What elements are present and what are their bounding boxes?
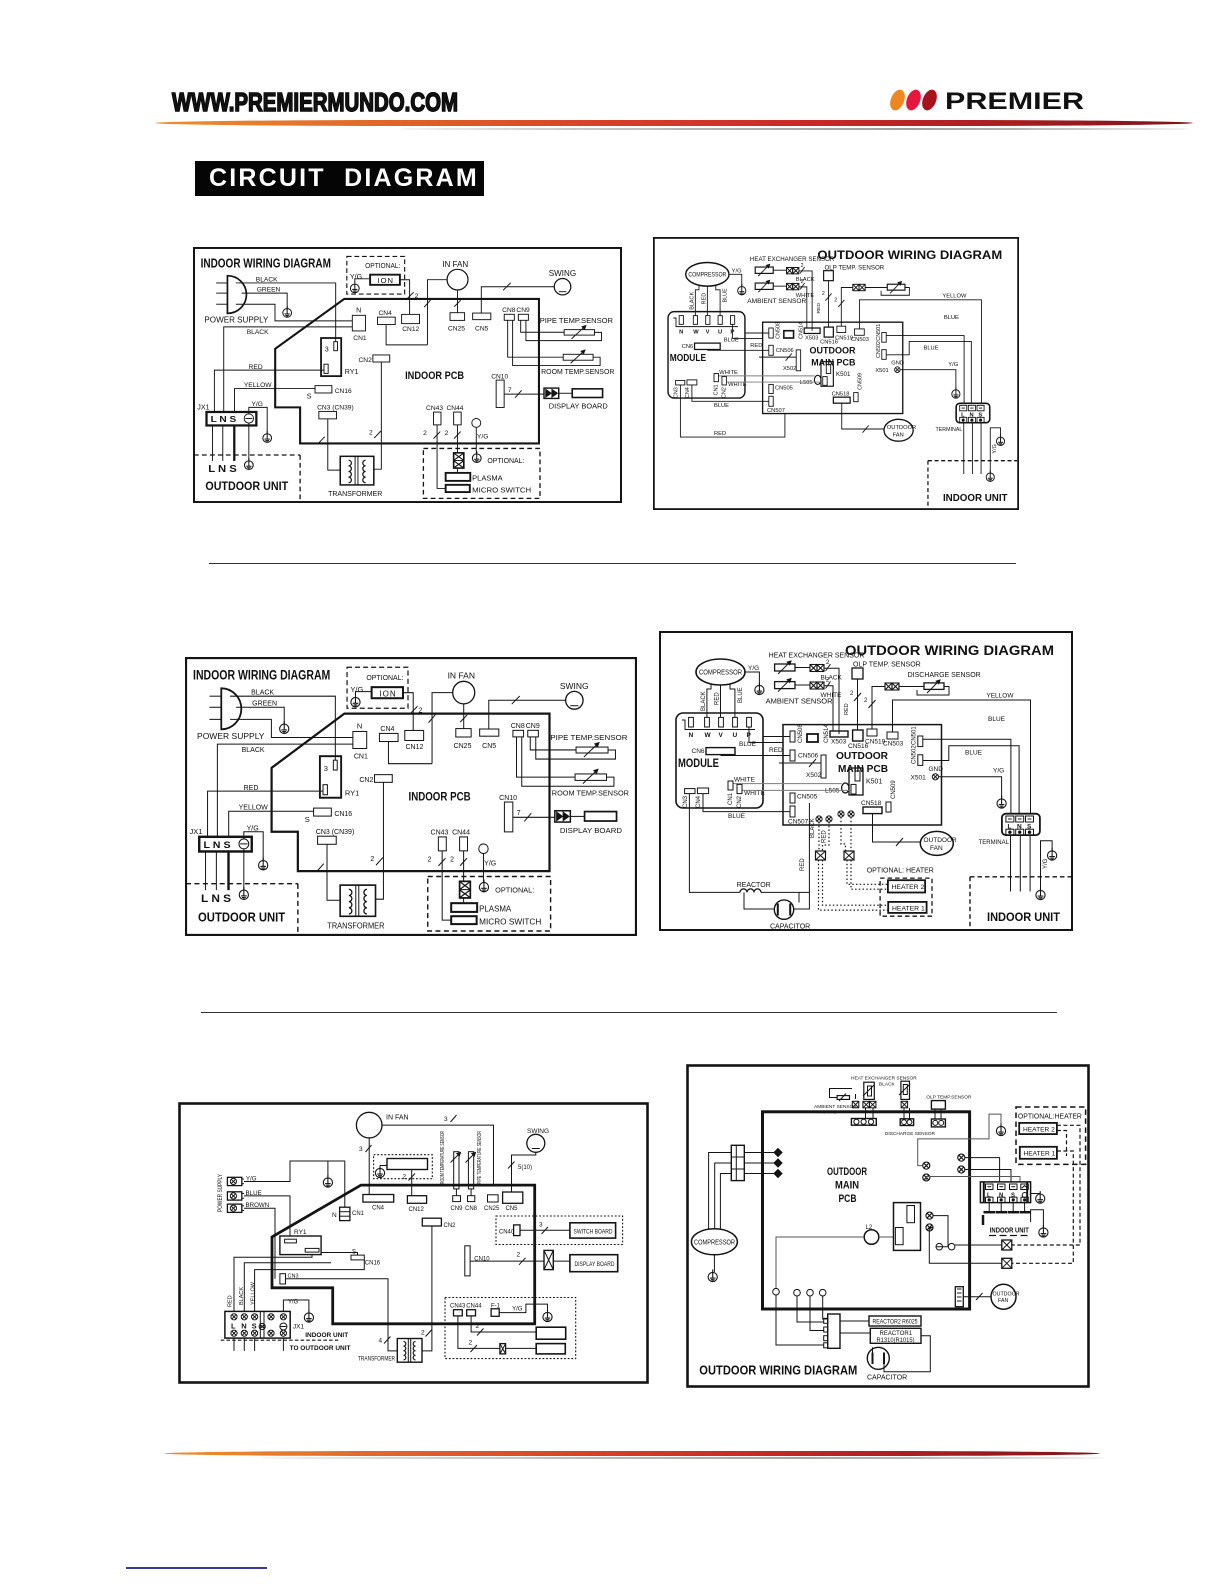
svg-text:ROOM TEMPERATURE SENSOR: ROOM TEMPERATURE SENSOR: [440, 1131, 446, 1184]
svg-text:S: S: [252, 1322, 257, 1331]
reactor1: [870, 1328, 921, 1343]
svg-text:CN9: CN9: [451, 1206, 464, 1212]
svg-text:RED: RED: [714, 431, 726, 437]
svg-text:REACTOR2 R6025: REACTOR2 R6025: [873, 1320, 919, 1326]
terminal stubs: [988, 1203, 990, 1213]
compressor connector: [731, 1145, 744, 1180]
top gradient rule: [155, 120, 1193, 126]
outdoor main pcb: [763, 1112, 970, 1309]
svg-text:N: N: [999, 1193, 1003, 1199]
wire dotted to heater2: [847, 860, 888, 884]
ground in optional box: [543, 1310, 552, 1322]
relay box: [894, 1203, 921, 1251]
footer link line: [126, 1567, 267, 1569]
svg-text:RY1: RY1: [294, 1229, 307, 1236]
svg-text:CN8: CN8: [465, 1206, 478, 1212]
wire dotted pair2: [841, 817, 846, 851]
svg-text:CN44: CN44: [466, 1304, 482, 1310]
svg-text:HEATER 2: HEATER 2: [1023, 1126, 1055, 1133]
dashed wire heater1: [1012, 1151, 1074, 1263]
screw terminals pcb bottom: [816, 816, 822, 822]
aux board 2: [536, 1344, 565, 1354]
display board: [570, 1255, 618, 1272]
connector N CN1: [340, 1207, 350, 1220]
svg-text:CN12: CN12: [409, 1207, 425, 1213]
ground indoor unit: [1039, 1225, 1048, 1237]
svg-text:YELLOW: YELLOW: [251, 1281, 257, 1305]
svg-text:SWITCH BOARD: SWITCH BOARD: [574, 1229, 613, 1236]
svg-text:S: S: [1011, 1193, 1015, 1199]
svg-text:AMBIENT SENSOR: AMBIENT SENSOR: [814, 1104, 857, 1110]
heater plug 1: [1002, 1240, 1012, 1250]
pcb bottom nodes: [773, 1288, 780, 1295]
frame border: [688, 1066, 1089, 1387]
svg-text:TO OUTDOOR UNIT: TO OUTDOOR UNIT: [290, 1345, 351, 1352]
switch board: [570, 1223, 616, 1238]
capacitor: [867, 1347, 889, 1369]
logo dot orange: [887, 88, 907, 113]
svg-text:RED: RED: [822, 830, 828, 843]
svg-text:CN40: CN40: [499, 1230, 515, 1236]
svg-text:CN43: CN43: [450, 1304, 466, 1310]
ground compressor: [708, 1270, 717, 1282]
ground power supply: [323, 1175, 332, 1187]
row3 indoor wiring diagram: [178, 1102, 649, 1384]
wire compressor leads: [709, 1153, 732, 1229]
heater 2: [888, 880, 925, 892]
svg-text:DISPLAY BOARD: DISPLAY BOARD: [575, 1261, 615, 1268]
svg-text:2: 2: [469, 1340, 473, 1347]
connector CN12: [407, 1196, 426, 1204]
terminal BROWN: [227, 1204, 241, 1212]
svg-text:HEATER 2: HEATER 2: [892, 884, 925, 891]
svg-text:OUTDOOR: OUTDOOR: [993, 1292, 1020, 1298]
heater plug 1: [816, 851, 826, 860]
svg-text:WHITE: WHITE: [821, 1110, 836, 1116]
row2 indoor wiring diagram: [185, 657, 637, 936]
svg-text:L: L: [231, 1322, 236, 1331]
wire ground top: [918, 1114, 1001, 1166]
frame border: [180, 1104, 648, 1383]
svg-text:DISCHARGE SENSOR: DISCHARGE SENSOR: [885, 1131, 936, 1137]
wire compressor ground: [713, 1255, 715, 1272]
svg-text:2: 2: [421, 1330, 425, 1337]
screw pair C: [926, 1212, 933, 1219]
svg-text:R1310(R1015): R1310(R1015): [877, 1338, 915, 1344]
svg-text:INDOOR UNIT: INDOOR UNIT: [305, 1332, 348, 1339]
terminal block: [980, 1182, 1030, 1203]
dashed indoor/outdoor split: [221, 1339, 340, 1341]
svg-text:BLACK: BLACK: [810, 818, 816, 838]
svg-text:CN2: CN2: [444, 1223, 457, 1229]
wire screws to terminal: [965, 1158, 1000, 1182]
terminal Y/G: [227, 1177, 241, 1185]
svg-text:3: 3: [444, 1116, 448, 1123]
heater dashed box: [880, 878, 932, 916]
outdoor fan: [991, 1284, 1016, 1309]
svg-text:PIPE TEMPERATURE SENSOR: PIPE TEMPERATURE SENSOR: [477, 1131, 483, 1184]
wire phase 2: [744, 1162, 774, 1164]
ground JX1: [304, 1310, 313, 1322]
node circles: [936, 1243, 943, 1250]
logo dot red: [903, 88, 923, 113]
svg-text:2: 2: [517, 1252, 521, 1259]
wire RY1 to CN16: [321, 1253, 357, 1256]
wire CN40 to switch board: [520, 1229, 570, 1231]
wire CN3 to reactor: [689, 794, 740, 892]
ground pcb top: [996, 1124, 1005, 1136]
wire CN3 to transformer: [286, 1279, 398, 1351]
svg-text:OPTIONAL: HEATER: OPTIONAL: HEATER: [867, 868, 934, 875]
wire to fan: [963, 1296, 991, 1298]
sensor connector block: [851, 1119, 876, 1126]
connector CN3: [280, 1274, 286, 1284]
svg-text:OLP TEMP.SENSOR: OLP TEMP.SENSOR: [926, 1095, 972, 1101]
transformer: [397, 1339, 422, 1363]
bottom gradient rule: [164, 1451, 1100, 1456]
capacitor C1: [774, 900, 793, 919]
svg-text:RED: RED: [228, 1295, 234, 1307]
ion box: [387, 1159, 428, 1170]
wires below JX1: [233, 1338, 235, 1351]
svg-text:HEATER 1: HEATER 1: [1024, 1151, 1056, 1158]
svg-text:JX1: JX1: [293, 1324, 305, 1331]
wire BLUE run: [244, 1196, 290, 1236]
svg-text:CAPACITOR: CAPACITOR: [770, 924, 810, 931]
svg-text:MAIN: MAIN: [835, 1180, 859, 1192]
header website name: [168, 84, 468, 118]
svg-text:CN4: CN4: [372, 1206, 385, 1212]
heater 1: [1020, 1147, 1057, 1159]
heater 2: [1019, 1123, 1057, 1134]
indoor unit label: [982, 1215, 985, 1225]
svg-text:S: S: [352, 1250, 356, 1256]
svg-text:REACTOR: REACTOR: [737, 882, 771, 889]
svg-text:WWW.PREMIERMUNDO.COM: WWW.PREMIERMUNDO.COM: [172, 87, 458, 117]
svg-text:POWER SUPPLY: POWER SUPPLY: [217, 1174, 224, 1212]
screw pair B: [958, 1154, 965, 1161]
svg-text:CN1: CN1: [352, 1211, 365, 1217]
optional sensor dotted box: [374, 1155, 433, 1179]
wire reactor to capacitor left: [744, 892, 774, 909]
optional dotted box bottom: [445, 1298, 576, 1359]
connector CN4: [363, 1195, 394, 1203]
svg-text:3: 3: [359, 1146, 363, 1153]
svg-text:2: 2: [476, 1323, 480, 1330]
svg-text:HEATER 1: HEATER 1: [892, 906, 925, 913]
wire indoor unit ground: [1031, 1210, 1044, 1227]
wire ground branch: [327, 1161, 329, 1177]
svg-text:OPTIONAL:HEATER: OPTIONAL:HEATER: [1018, 1112, 1082, 1121]
svg-text:CN5: CN5: [506, 1206, 519, 1212]
wire to plug1: [955, 1244, 1002, 1246]
svg-text:REACTOR1: REACTOR1: [880, 1331, 913, 1337]
svg-text:L: L: [987, 1193, 991, 1199]
connector CN10: [465, 1246, 470, 1276]
wire fan right: [382, 1125, 494, 1185]
terminal BLUE: [227, 1192, 241, 1200]
svg-text:PREMIER: PREMIER: [945, 88, 1084, 115]
discharge sensor: [901, 1081, 910, 1099]
svg-text:CAPACITOR: CAPACITOR: [867, 1375, 907, 1382]
separator rule 1: [209, 563, 1016, 564]
svg-text:N: N: [241, 1322, 246, 1331]
dashed wire heater aux: [1057, 1131, 1067, 1157]
wire CN43 to board2: [458, 1316, 500, 1349]
svg-text:N: N: [332, 1212, 337, 1219]
svg-text:BLACK: BLACK: [879, 1082, 896, 1088]
optional heater dashed box: [1016, 1107, 1086, 1164]
svg-text:HEAT EXCHANGER SENSOR: HEAT EXCHANGER SENSOR: [851, 1076, 917, 1082]
connector CN5: [503, 1192, 523, 1203]
svg-text:FAN: FAN: [998, 1298, 1008, 1304]
svg-text:DISCHARGE SENSOR: DISCHARGE SENSOR: [908, 672, 981, 679]
wire L2 left: [776, 1237, 864, 1288]
reactor2: [869, 1316, 921, 1326]
wire RED module to pcb: [680, 385, 784, 437]
wire swing to CN5: [512, 1152, 536, 1192]
heater plug 2: [844, 851, 854, 860]
terminal ground right: [1036, 1191, 1045, 1203]
terminal block JX1: [225, 1311, 290, 1338]
compressor M: [691, 1229, 737, 1255]
wire phase 3: [744, 1173, 774, 1175]
logo dot dark red: [919, 88, 939, 113]
separator rule 2: [201, 1012, 1057, 1013]
svg-text:OUTDOOR WIRING DIAGRAM: OUTDOOR WIRING DIAGRAM: [699, 1363, 857, 1378]
row1 outdoor wiring diagram: [653, 237, 1019, 510]
fan connector on pcb: [955, 1287, 963, 1307]
connector CN2: [422, 1218, 441, 1226]
svg-text:5(10): 5(10): [518, 1165, 532, 1171]
svg-text:IN FAN: IN FAN: [386, 1115, 409, 1122]
screw pair A: [923, 1162, 930, 1169]
premier logo: [884, 84, 1094, 116]
reactor connector stack: [828, 1314, 840, 1348]
svg-text:PCB: PCB: [839, 1193, 857, 1205]
row2 outdoor wiring diagram: [659, 631, 1073, 931]
svg-text:OUTDOOR: OUTDOOR: [827, 1166, 867, 1178]
node diamond 3: [774, 1170, 782, 1178]
svg-text:4: 4: [379, 1338, 383, 1345]
wire reactor1 to capacitor: [884, 1336, 930, 1372]
wires to reactor connector: [797, 1296, 824, 1322]
wire CN10 to display: [470, 1260, 544, 1262]
node diamond 2: [774, 1159, 782, 1167]
wire box down: [411, 1170, 413, 1196]
wire reactor right to red: [761, 892, 799, 902]
svg-text:3: 3: [539, 1222, 543, 1229]
wire screws C: [933, 1216, 948, 1247]
in fan motor: [356, 1112, 382, 1138]
display connector: [544, 1250, 553, 1269]
relay RY1: [280, 1236, 321, 1255]
wire Y/G run: [244, 1161, 345, 1207]
inline connector: [500, 1344, 506, 1354]
wire phase 1: [744, 1152, 774, 1154]
svg-text:CN25: CN25: [484, 1206, 500, 1212]
wire CN2 to transformer: [422, 1226, 432, 1351]
row1 indoor wiring diagram: [193, 247, 622, 503]
heater 1: [888, 902, 926, 913]
wire L2 right: [879, 1236, 894, 1238]
wire dotted to heater1: [819, 860, 889, 910]
wire fan down: [368, 1138, 370, 1195]
node diamond 1: [774, 1149, 782, 1157]
row3 outdoor wiring diagram: [686, 1064, 1090, 1388]
wire CN44 to board1: [471, 1316, 536, 1332]
svg-text:TRANSFORMER: TRANSFORMER: [358, 1356, 395, 1363]
svg-text:INDOOR UNIT: INDOOR UNIT: [990, 1228, 1030, 1235]
svg-text:RED: RED: [800, 858, 806, 871]
pcb outline: [272, 1185, 535, 1324]
CIRCUIT DIAGRAM title bar: [195, 161, 484, 196]
svg-text:CN16: CN16: [365, 1261, 381, 1267]
switch board dotted box: [496, 1216, 623, 1245]
svg-text:COMPRESSOR: COMPRESSOR: [694, 1240, 735, 1247]
dashed wire heater2: [1012, 1125, 1080, 1245]
connector CN25: [488, 1195, 499, 1202]
svg-text:2: 2: [403, 1174, 407, 1181]
heater plug 2: [1002, 1258, 1012, 1268]
aux board 1: [536, 1327, 566, 1339]
ground in dotted box: [375, 1166, 384, 1178]
svg-text:Y/G: Y/G: [512, 1307, 523, 1313]
wire BROWN run: [244, 1208, 275, 1279]
